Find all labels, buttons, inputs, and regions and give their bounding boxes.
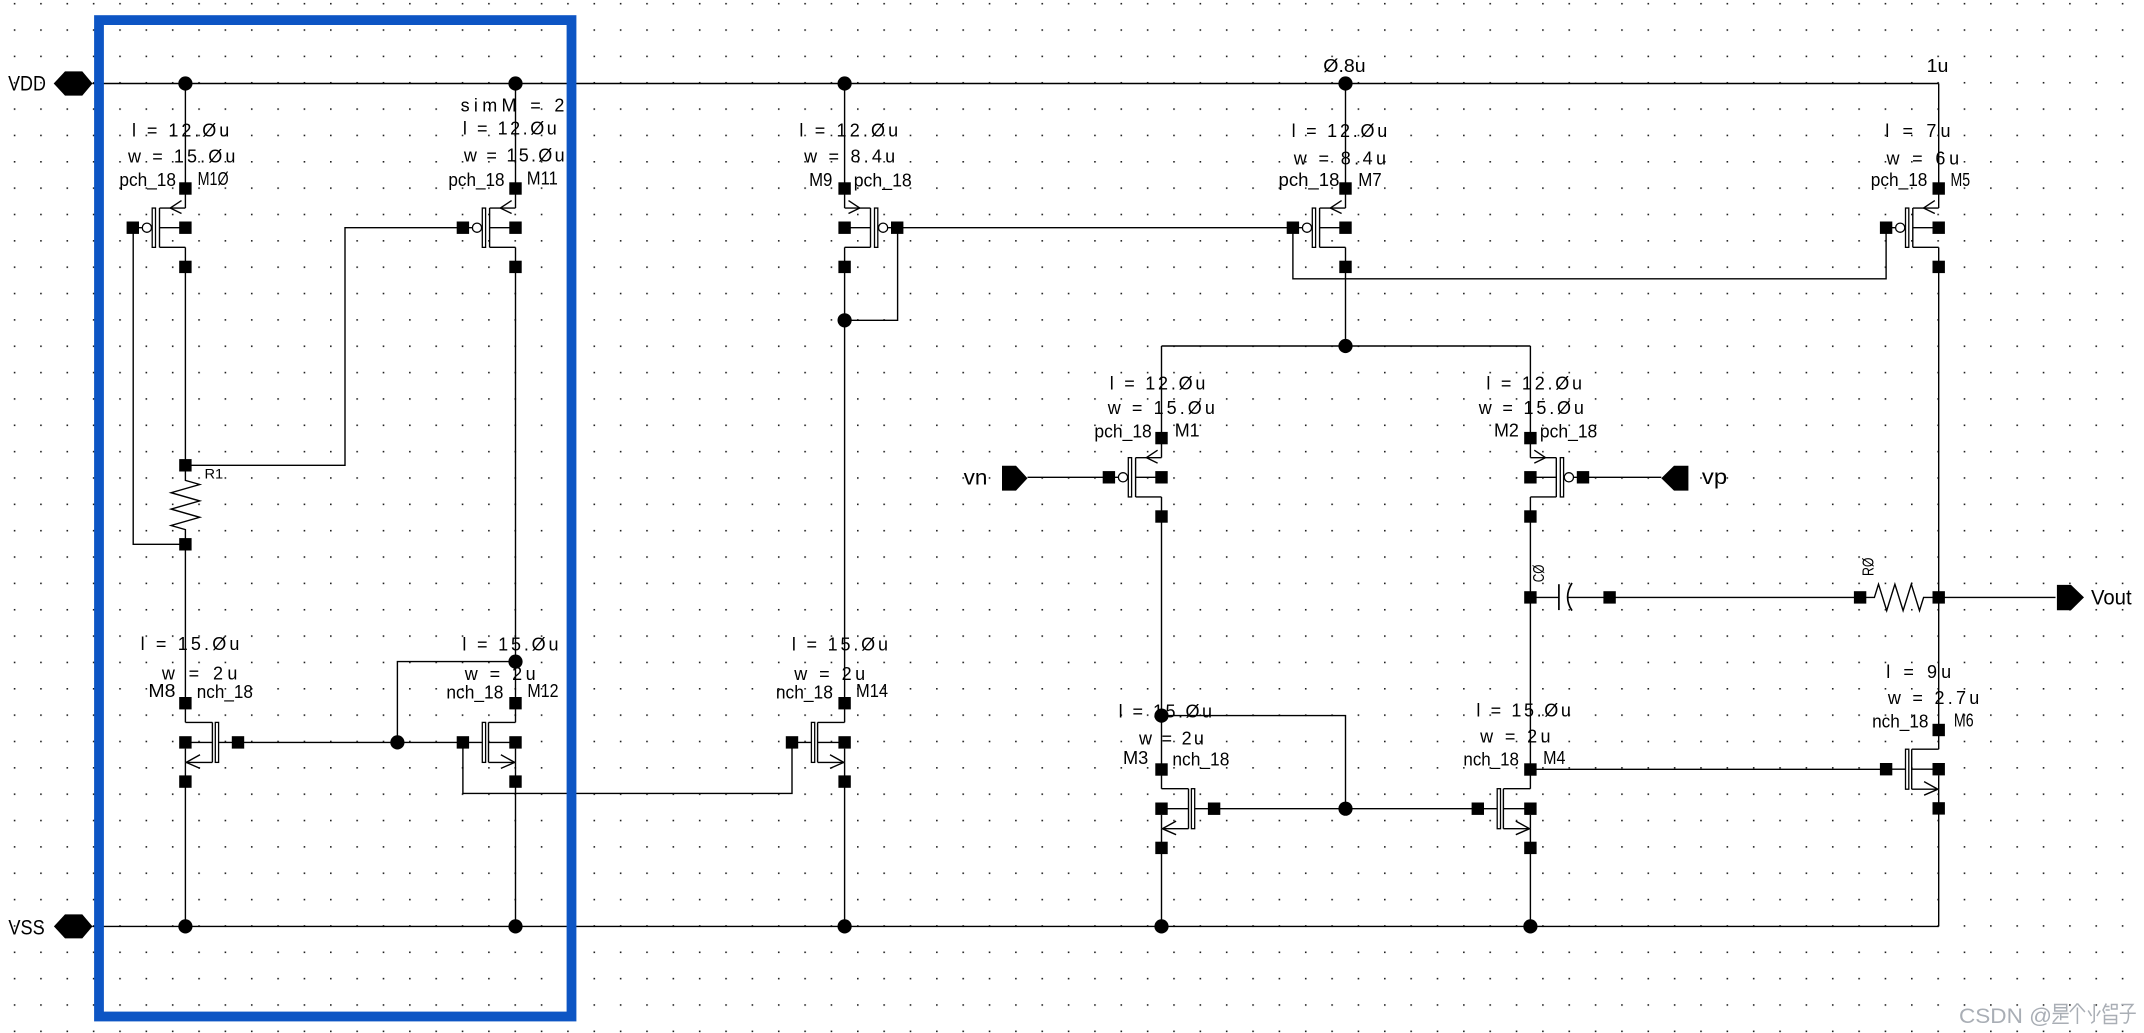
svg-text:l = 15.Øu: l = 15.Øu	[792, 635, 888, 655]
svg-text:l = 12.Øu: l = 12.Øu	[1486, 373, 1582, 393]
svg-text:w = 2u: w = 2u	[1138, 729, 1204, 749]
svg-text:l = 9u: l = 9u	[1886, 662, 1951, 682]
svg-text:w = 15.Øu: w = 15.Øu	[1478, 398, 1584, 418]
svg-text:M9: M9	[809, 170, 832, 190]
svg-text:w = 15.Øu: w = 15.Øu	[127, 147, 235, 167]
svg-text:l = 15.Øu: l = 15.Øu	[1476, 701, 1571, 721]
svg-text:M1Ø: M1Ø	[198, 169, 229, 189]
svg-text:M14: M14	[856, 681, 888, 701]
svg-text:pch_18: pch_18	[1540, 422, 1597, 443]
svg-text:vp: vp	[1702, 465, 1727, 489]
svg-text:simM = 2: simM = 2	[461, 96, 565, 116]
svg-text:CSDN @: CSDN @	[1959, 1005, 2052, 1028]
svg-text:pch_18: pch_18	[119, 170, 176, 191]
svg-text:Vout: Vout	[2091, 586, 2132, 610]
svg-text:pch_18: pch_18	[1871, 170, 1928, 191]
svg-text:l = 15.Øu: l = 15.Øu	[1119, 702, 1212, 722]
svg-text:M6: M6	[1954, 711, 1974, 731]
svg-text:nch_18: nch_18	[776, 683, 833, 704]
svg-text:Ø.8u: Ø.8u	[1323, 56, 1365, 76]
svg-text:l = 12.Øu: l = 12.Øu	[463, 119, 557, 139]
svg-text:w = 2u: w = 2u	[1479, 727, 1550, 747]
svg-text:M2: M2	[1494, 421, 1519, 441]
svg-text:M11: M11	[527, 169, 558, 189]
svg-text:M5: M5	[1951, 170, 1971, 190]
svg-text:M8: M8	[148, 681, 175, 701]
svg-text:CØ: CØ	[1531, 564, 1548, 582]
svg-text:l = 12.Øu: l = 12.Øu	[799, 120, 898, 140]
svg-text:l = 15.Øu: l = 15.Øu	[141, 634, 240, 654]
svg-text:VSS: VSS	[8, 916, 44, 940]
svg-text:w = 2u: w = 2u	[793, 664, 865, 684]
svg-text:l = 7u: l = 7u	[1885, 121, 1950, 141]
svg-text:l = 15.Øu: l = 15.Øu	[462, 635, 558, 655]
svg-text:w = 15.Øu: w = 15.Øu	[1107, 398, 1215, 418]
svg-text:M4: M4	[1543, 748, 1565, 768]
svg-text:vn: vn	[964, 466, 988, 490]
svg-text:M7: M7	[1358, 170, 1382, 190]
svg-text:nch_18: nch_18	[1172, 750, 1229, 771]
svg-text:w = 2u: w = 2u	[464, 664, 536, 684]
svg-text:M3: M3	[1123, 748, 1148, 768]
svg-text:nch_18: nch_18	[1463, 750, 1519, 771]
svg-text:l = 12.Øu: l = 12.Øu	[1110, 373, 1206, 393]
svg-text:nch_18: nch_18	[1872, 712, 1928, 733]
svg-text:pch_18: pch_18	[854, 171, 912, 192]
svg-text:RØ: RØ	[1861, 558, 1878, 577]
svg-text:pch_18: pch_18	[1094, 422, 1151, 443]
svg-text:pch_18: pch_18	[448, 170, 504, 191]
svg-text:M1: M1	[1175, 421, 1200, 441]
svg-text:l = 12.Øu: l = 12.Øu	[1292, 121, 1388, 141]
svg-text:R1: R1	[205, 466, 224, 482]
svg-text:VDD: VDD	[8, 71, 46, 95]
svg-text:nch_18: nch_18	[446, 683, 503, 704]
svg-text:pch_18: pch_18	[1279, 170, 1340, 191]
svg-text:M12: M12	[527, 681, 558, 701]
svg-text:nch_18: nch_18	[197, 682, 253, 703]
svg-text:l = 12.Øu: l = 12.Øu	[132, 121, 229, 141]
svg-text:1u: 1u	[1927, 56, 1949, 76]
